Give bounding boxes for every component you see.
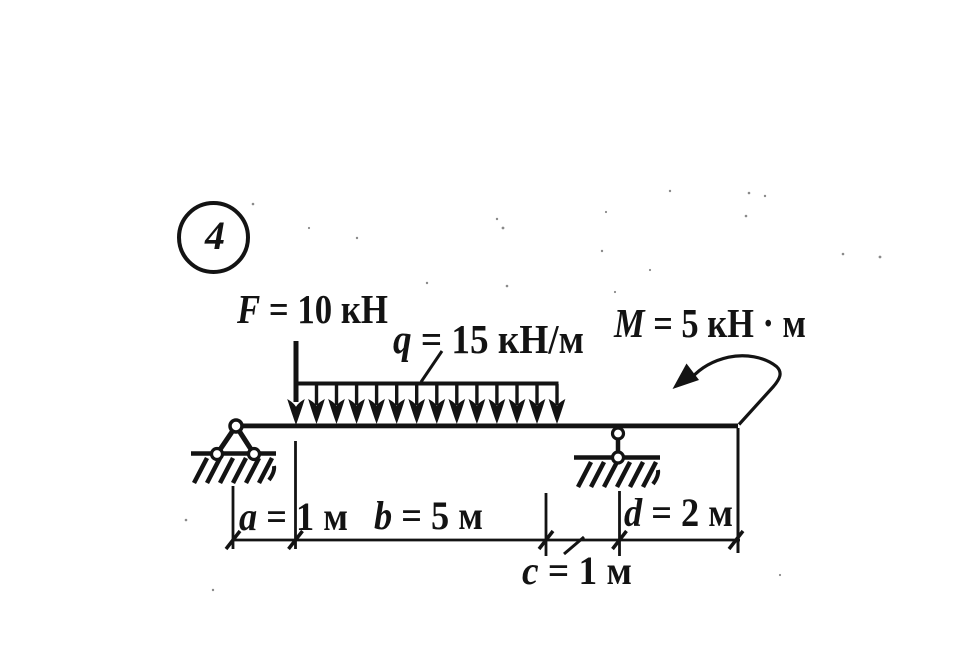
beam [238, 424, 738, 429]
leader line from q label to load line [421, 351, 442, 382]
svg-text:d = 2 м: d = 2 м [624, 490, 733, 535]
right end vertical line [737, 428, 740, 553]
load arrow 13 [550, 384, 565, 423]
load arrow 8 [449, 384, 464, 423]
svg-text:c = 1 м: c = 1 м [522, 548, 632, 593]
load arrow 10 [489, 384, 504, 423]
right ground line [574, 455, 660, 460]
load arrow 1 [309, 384, 324, 423]
extension line below left support [232, 486, 235, 549]
leader slash for c label [564, 537, 584, 554]
load arrow 12 [530, 384, 545, 423]
load arrow 9 [469, 384, 484, 423]
svg-text:q = 15 кН/м: q = 15 кН/м [393, 316, 584, 362]
svg-text:F = 10 кН: F = 10 кН [236, 286, 388, 332]
extension line at end of load [545, 493, 548, 556]
extension line below roller [618, 491, 621, 556]
left ground line [191, 451, 276, 456]
problem number circle 4 [179, 203, 248, 272]
svg-text:a = 1 м: a = 1 м [239, 494, 348, 539]
extension line below force F [294, 441, 297, 549]
distributed load arrows [309, 384, 565, 423]
pin support (left): hinge circles [212, 420, 260, 460]
moment M curved arrow [673, 356, 781, 425]
load arrow 3 [349, 384, 364, 423]
load arrow 4 [369, 384, 384, 423]
pin support (left): legs [217, 426, 254, 454]
svg-text:4: 4 [204, 213, 225, 258]
load arrow 7 [429, 384, 444, 423]
force F arrow [287, 341, 305, 425]
distributed load q line [294, 382, 559, 386]
load arrow 11 [510, 384, 525, 423]
dimension line [232, 539, 740, 542]
roller support (right) [613, 428, 624, 463]
dimension tick marks [226, 531, 743, 549]
load arrow 5 [389, 384, 404, 423]
left ground hatching [194, 458, 274, 483]
svg-text:M = 5 кН · м: M = 5 кН · м [613, 300, 806, 346]
load arrow 6 [409, 384, 424, 423]
load arrow 2 [329, 384, 344, 423]
scan noise specks (decorative) [185, 190, 882, 591]
right ground hatching [578, 462, 658, 487]
svg-text:b = 5 м: b = 5 м [374, 493, 483, 538]
